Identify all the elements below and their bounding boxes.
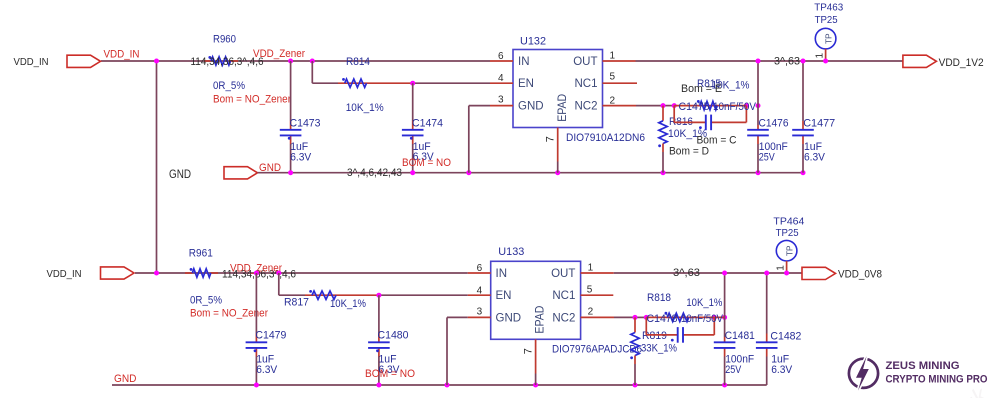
svg-text:NC1: NC1 <box>552 290 575 302</box>
svg-text:CRYPTO MINING PRO: CRYPTO MINING PRO <box>886 374 988 386</box>
wire feedback vertical from OUT <box>757 61 759 125</box>
node junction C1475 branch left <box>672 103 677 108</box>
svg-text:10K_1%: 10K_1% <box>686 297 722 309</box>
node junction C1479 tap <box>254 271 259 276</box>
svg-text:6.3V: 6.3V <box>804 151 826 163</box>
svg-text:U132: U132 <box>520 36 546 48</box>
svg-text:10nF/50V: 10nF/50V <box>713 101 757 113</box>
svg-text:TP25: TP25 <box>815 14 838 26</box>
capacitor C1476 <box>757 125 759 130</box>
svg-text:0R_5%: 0R_5% <box>190 295 222 307</box>
svg-text:1: 1 <box>588 263 594 274</box>
svg-text:3^,4,6,42,43: 3^,4,6,42,43 <box>347 167 402 179</box>
svg-text:U133: U133 <box>498 246 524 258</box>
svg-text:VDD_IN: VDD_IN <box>47 268 82 280</box>
wire R817 branch to EN <box>278 273 280 295</box>
capacitor C1477 <box>802 61 804 121</box>
pin 2 stub U133 NC2 <box>581 316 614 318</box>
port VDD_IN (top) <box>67 55 101 67</box>
node junction feedback vertical <box>756 103 761 108</box>
svg-text:25V: 25V <box>725 364 742 376</box>
capacitor C1482 <box>766 273 768 334</box>
node junction rail C1473 <box>288 170 293 175</box>
node junction rail C1474 <box>410 170 415 175</box>
svg-text:1: 1 <box>610 50 616 61</box>
svg-text:7: 7 <box>522 348 534 354</box>
node junction C1480 tap <box>376 293 381 298</box>
svg-text:EPAD: EPAD <box>533 305 547 333</box>
node junction R817 tap <box>276 271 281 276</box>
node junction rail C1481 <box>722 383 727 388</box>
pin 4 stub U132 <box>490 82 513 84</box>
svg-text:4: 4 <box>498 73 504 84</box>
svg-text:6.3V: 6.3V <box>290 151 312 163</box>
node junction C1478 branch right <box>712 315 717 320</box>
node junction rail C1480 <box>376 383 381 388</box>
svg-text:Bom = D: Bom = D <box>669 145 709 157</box>
pin 7 EPAD stub U132 <box>557 128 559 162</box>
svg-text:TP: TP <box>785 245 794 256</box>
svg-text:5: 5 <box>587 284 593 295</box>
node junction C1473 tap <box>288 59 293 64</box>
svg-text:25V: 25V <box>759 151 776 163</box>
capacitor C1480 <box>378 295 380 333</box>
svg-text:C1480: C1480 <box>378 330 409 342</box>
svg-text:C1482: C1482 <box>770 331 801 343</box>
resistor R960 <box>204 60 211 62</box>
svg-text:GND: GND <box>169 167 191 181</box>
port VDD_0V8 <box>802 267 836 279</box>
pin 5 stub U133 NC1 <box>581 294 614 296</box>
svg-text:6: 6 <box>477 263 483 274</box>
wire U133 GND pin3 to rail <box>447 316 468 318</box>
svg-text:10nF/50V: 10nF/50V <box>681 313 724 325</box>
svg-text:3: 3 <box>477 307 483 318</box>
pin 7 EPAD stub U133 <box>535 339 537 373</box>
node junction OUT C1482 <box>764 271 769 276</box>
node junction C1475 branch right <box>744 103 749 108</box>
svg-text:TP464: TP464 <box>773 216 804 228</box>
node junction OUT TP464 <box>784 271 789 276</box>
svg-text:6: 6 <box>498 51 504 62</box>
pin 6 stub U133 <box>468 272 491 274</box>
wire U132 OUT to VDD_1V2 port <box>636 60 904 62</box>
svg-text:VDD_IN: VDD_IN <box>104 49 140 61</box>
node junction rail C1477 <box>801 170 806 175</box>
svg-text:OUT: OUT <box>573 56 597 68</box>
resistor R816 <box>662 106 664 121</box>
svg-text:VDD_0V8: VDD_0V8 <box>838 269 882 281</box>
node junction C1478 branch left <box>644 315 649 320</box>
svg-text:C1479: C1479 <box>255 330 286 342</box>
decorative faint watermark <box>957 381 995 398</box>
wire VDD_IN bottom main <box>135 272 468 274</box>
wire vertical VDD_IN to bottom port <box>156 61 158 273</box>
node junction rail C1476 <box>756 170 761 175</box>
capacitor C1478 parallel <box>645 317 647 335</box>
wire U132 GND pin3 to rail <box>469 105 490 107</box>
wire GND rail bottom <box>112 384 767 386</box>
node junction C1474 tap <box>410 81 415 86</box>
pin 4 stub U133 <box>468 294 491 296</box>
svg-text:4: 4 <box>477 285 483 296</box>
svg-text:6.3V: 6.3V <box>256 364 278 376</box>
svg-text:ZEUS MINING: ZEUS MINING <box>886 360 960 372</box>
pin 5 stub U132 NC1 <box>603 82 638 84</box>
svg-text:10K_1%: 10K_1% <box>330 298 366 310</box>
node junction NC2 R819 <box>633 315 638 320</box>
port VDD_IN (bottom) <box>101 267 135 279</box>
svg-text:EPAD: EPAD <box>555 94 569 122</box>
node junction rail U132 EPAD <box>555 170 560 175</box>
port GND (top) <box>224 167 258 179</box>
svg-text:GND: GND <box>518 101 544 113</box>
svg-text:VDD_1V2: VDD_1V2 <box>939 57 984 69</box>
svg-text:1: 1 <box>815 53 826 59</box>
svg-text:GND: GND <box>496 313 522 325</box>
capacitor C1473 <box>290 61 292 121</box>
node junction R814 tap <box>310 59 315 64</box>
resistor R819 <box>634 317 636 332</box>
pin 2 stub U132 NC2 <box>603 105 637 107</box>
svg-text:3^,63: 3^,63 <box>673 267 700 279</box>
pin 6 stub U132 <box>490 60 513 62</box>
capacitor C1475 parallel <box>673 106 675 123</box>
capacitor C1474 <box>412 83 414 121</box>
svg-text:DIO7910A12DN6: DIO7910A12DN6 <box>566 132 645 144</box>
pin 1 stub U133 <box>581 272 614 274</box>
pin 3 stub U133 <box>468 316 491 318</box>
svg-text:GND: GND <box>114 373 137 385</box>
wire feedback vertical bottom from OUT <box>724 273 726 337</box>
port VDD_1V2 <box>903 55 937 67</box>
svg-text:C1477: C1477 <box>803 117 835 129</box>
node junction NC2 R816 <box>661 103 666 108</box>
node junction rail R819 <box>633 383 638 388</box>
svg-text:33K_1%: 33K_1% <box>641 342 677 354</box>
svg-text:IN: IN <box>518 56 530 68</box>
svg-text:NC1: NC1 <box>574 78 597 90</box>
svg-text:3^,63: 3^,63 <box>774 56 800 68</box>
svg-text:Bom = C: Bom = C <box>697 135 737 147</box>
svg-text:2: 2 <box>588 306 594 317</box>
svg-text:R814: R814 <box>346 56 370 68</box>
svg-text:6.3V: 6.3V <box>771 364 793 376</box>
svg-text:C1473: C1473 <box>290 117 321 129</box>
wire U133 OUT to VDD_0V8 port <box>614 272 802 274</box>
node junction rail U133 GND <box>445 383 450 388</box>
svg-text:VDD_IN: VDD_IN <box>14 56 49 68</box>
capacitor C1481 <box>724 337 726 342</box>
svg-text:Bom = NO_Zener: Bom = NO_Zener <box>213 93 291 105</box>
svg-text:C1475: C1475 <box>679 101 710 113</box>
svg-text:10K_1%: 10K_1% <box>346 102 384 114</box>
svg-text:R817: R817 <box>284 297 309 309</box>
node junction rail R816 <box>661 170 666 175</box>
svg-text:C1481: C1481 <box>725 330 755 342</box>
svg-text:7: 7 <box>544 136 556 142</box>
svg-text:0R_5%: 0R_5% <box>213 80 245 92</box>
svg-text:IN: IN <box>496 268 508 280</box>
svg-text:C1474: C1474 <box>412 117 443 129</box>
wire NC2 net top <box>636 105 663 107</box>
resistor R818 parallel <box>646 316 724 318</box>
svg-text:R961: R961 <box>189 248 213 260</box>
wire NC2 net bottom <box>614 316 635 318</box>
svg-text:DIO7976APADJCD6: DIO7976APADJCD6 <box>552 343 642 355</box>
svg-text:BOM = NO: BOM = NO <box>402 157 451 169</box>
svg-text:TP25: TP25 <box>776 227 799 239</box>
svg-text:1: 1 <box>775 265 786 271</box>
svg-text:OUT: OUT <box>551 268 575 280</box>
svg-text:NC2: NC2 <box>574 101 597 113</box>
svg-text:Bom = E: Bom = E <box>681 83 722 95</box>
svg-text:3: 3 <box>498 94 504 105</box>
op-amp U132 regulator DIO7910A12DN6 <box>513 50 603 128</box>
svg-text:2: 2 <box>610 95 616 106</box>
op-amp U133 regulator DIO7976APADJC <box>491 261 581 339</box>
svg-text:TP463: TP463 <box>814 2 843 14</box>
svg-text:TP: TP <box>824 33 833 44</box>
node junction OUT C1477 <box>801 59 806 64</box>
svg-text:R818: R818 <box>647 292 671 304</box>
svg-text:EN: EN <box>518 78 534 90</box>
wire GND rail top <box>258 172 803 174</box>
svg-text:C1476: C1476 <box>759 117 789 129</box>
wire VDD_IN top main <box>101 60 490 62</box>
node junction feedback vertical bottom <box>722 315 727 320</box>
node junction rail U133 EPAD <box>533 383 538 388</box>
svg-text:VDD_Zener: VDD_Zener <box>253 48 305 60</box>
svg-text:R960: R960 <box>213 34 236 46</box>
resistor R817 <box>312 291 336 299</box>
node junction bottom VDD_IN <box>154 271 159 276</box>
resistor R815 parallel <box>674 105 746 107</box>
wire R814 branch to EN <box>311 61 313 83</box>
node junction OUT TP463 <box>823 59 828 64</box>
node junction top VDD_IN <box>154 59 159 64</box>
svg-text:5: 5 <box>610 72 616 83</box>
svg-text:C1478: C1478 <box>647 313 678 325</box>
pin 3 stub U132 <box>490 105 513 107</box>
resistor R961 <box>185 272 192 274</box>
svg-text:BOM = NO: BOM = NO <box>365 368 415 380</box>
node junction OUT C1481 <box>722 271 727 276</box>
capacitor C1479 <box>255 273 257 334</box>
node junction rail U132 GND <box>466 170 471 175</box>
svg-text:EN: EN <box>496 290 512 302</box>
pin 1 stub U132 <box>603 60 636 62</box>
svg-text:NC2: NC2 <box>552 313 575 325</box>
node junction OUT C1476 <box>756 59 761 64</box>
logo Zeus Mining <box>849 356 878 390</box>
node junction rail C1479 <box>254 383 259 388</box>
resistor R814 <box>345 79 367 87</box>
